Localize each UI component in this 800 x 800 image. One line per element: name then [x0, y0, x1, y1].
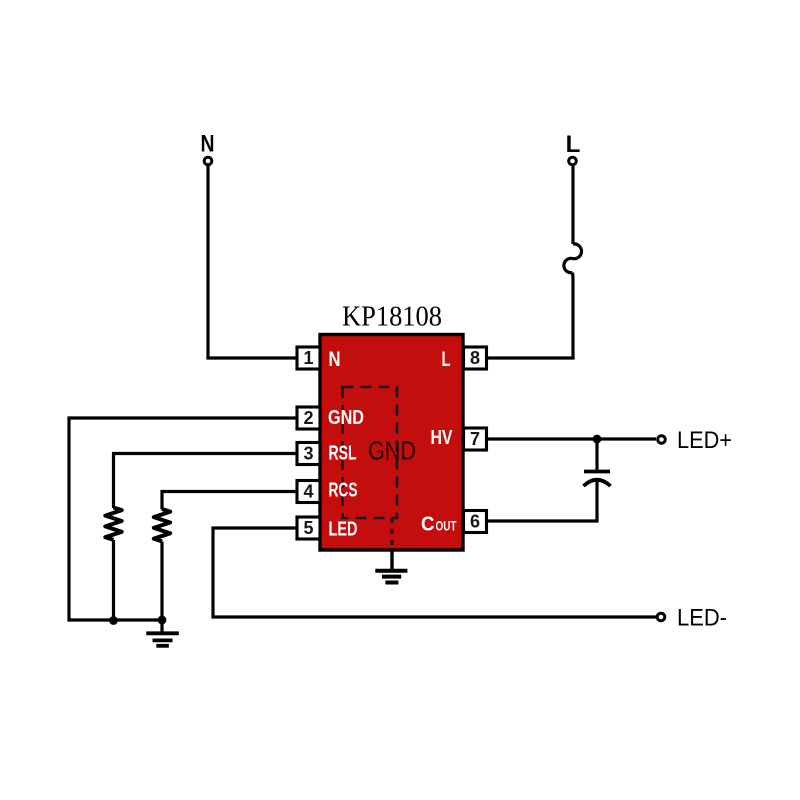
node L terminal circle — [569, 157, 577, 165]
IC pin label HV — [431, 427, 454, 449]
wire L vertical upper — [571, 166, 574, 245]
IC pin label LED — [329, 519, 358, 541]
ground left — [146, 620, 179, 646]
pin 7 box — [464, 428, 487, 450]
IC internal GND text — [368, 436, 416, 466]
wire N vertical — [206, 166, 209, 359]
IC internal dotted line to ground — [390, 518, 393, 550]
svg-text:OUT: OUT — [436, 518, 457, 534]
junction dot HV capacitor — [593, 435, 602, 444]
wire resistor R1 bottom — [112, 540, 115, 620]
IC pin label L — [442, 348, 451, 371]
wire pin 4 down to resistor R2 — [162, 492, 297, 510]
IC U1 body — [320, 335, 463, 551]
svg-text:C: C — [421, 514, 435, 536]
svg-text:KP18108: KP18108 — [342, 301, 442, 333]
node L terminal label — [566, 131, 581, 158]
junction dot R1 bottom — [109, 616, 118, 625]
svg-text:HV: HV — [431, 427, 454, 449]
svg-text:N: N — [201, 131, 215, 158]
pin 1 box — [297, 347, 320, 369]
pin 3 box — [297, 443, 320, 465]
node LED+ terminal circle — [658, 436, 666, 444]
svg-text:GND: GND — [328, 407, 364, 429]
svg-text:6: 6 — [470, 512, 480, 532]
wire N horizontal to pin 1 — [206, 356, 297, 359]
node LED- label — [677, 605, 727, 632]
svg-text:2: 2 — [303, 408, 313, 428]
IC pin label GND — [328, 407, 364, 429]
pin 2 box — [297, 407, 320, 429]
IC U1 title KP18108 — [342, 301, 442, 333]
pin 4 box — [297, 481, 320, 503]
wire pin 7 to LED+ — [487, 437, 657, 440]
IC pin label N — [329, 348, 341, 371]
wire pin 6 to capacitor — [487, 519, 599, 522]
svg-text:5: 5 — [303, 518, 313, 538]
wire resistor R2 bottom — [160, 542, 163, 621]
svg-text:L: L — [442, 348, 451, 371]
node LED+ label — [677, 427, 732, 454]
wire L vertical lower — [571, 273, 575, 358]
svg-text:LED: LED — [329, 519, 358, 541]
pin 6 box — [464, 511, 487, 533]
svg-text:LED-: LED- — [677, 605, 727, 632]
svg-text:RCS: RCS — [329, 480, 358, 502]
wire pin 3 down to resistor R1 — [114, 454, 298, 509]
IC pin label RSL — [329, 443, 357, 465]
svg-text:4: 4 — [303, 482, 313, 502]
wire L horizontal to pin 8 — [487, 356, 575, 359]
IC pin label RCS — [329, 480, 358, 502]
node N terminal circle — [204, 157, 212, 165]
svg-text:1: 1 — [303, 348, 313, 368]
IC internal dashed GND region — [343, 387, 398, 518]
pin 8 box — [464, 347, 487, 369]
svg-text:L: L — [566, 131, 581, 158]
ground below IC — [375, 550, 407, 583]
IC pin label COUT — [421, 514, 457, 536]
svg-text:8: 8 — [470, 348, 480, 368]
svg-text:GND: GND — [368, 436, 416, 466]
svg-text:RSL: RSL — [329, 443, 357, 465]
resistor R1 — [105, 508, 121, 540]
wire pin 5 to LED- — [213, 528, 656, 617]
resistor R2 — [154, 509, 170, 541]
svg-text:N: N — [329, 348, 341, 371]
fuse F1 — [564, 244, 582, 273]
junction dot ground — [158, 616, 167, 625]
svg-text:LED+: LED+ — [677, 427, 732, 454]
node N terminal label — [201, 131, 215, 158]
wire pin 2 to left rail — [69, 418, 297, 620]
capacitor C1 — [584, 439, 611, 521]
svg-text:3: 3 — [303, 444, 313, 464]
pin 5 box — [297, 517, 320, 539]
svg-text:7: 7 — [470, 429, 480, 449]
node LED- terminal circle — [657, 613, 665, 621]
